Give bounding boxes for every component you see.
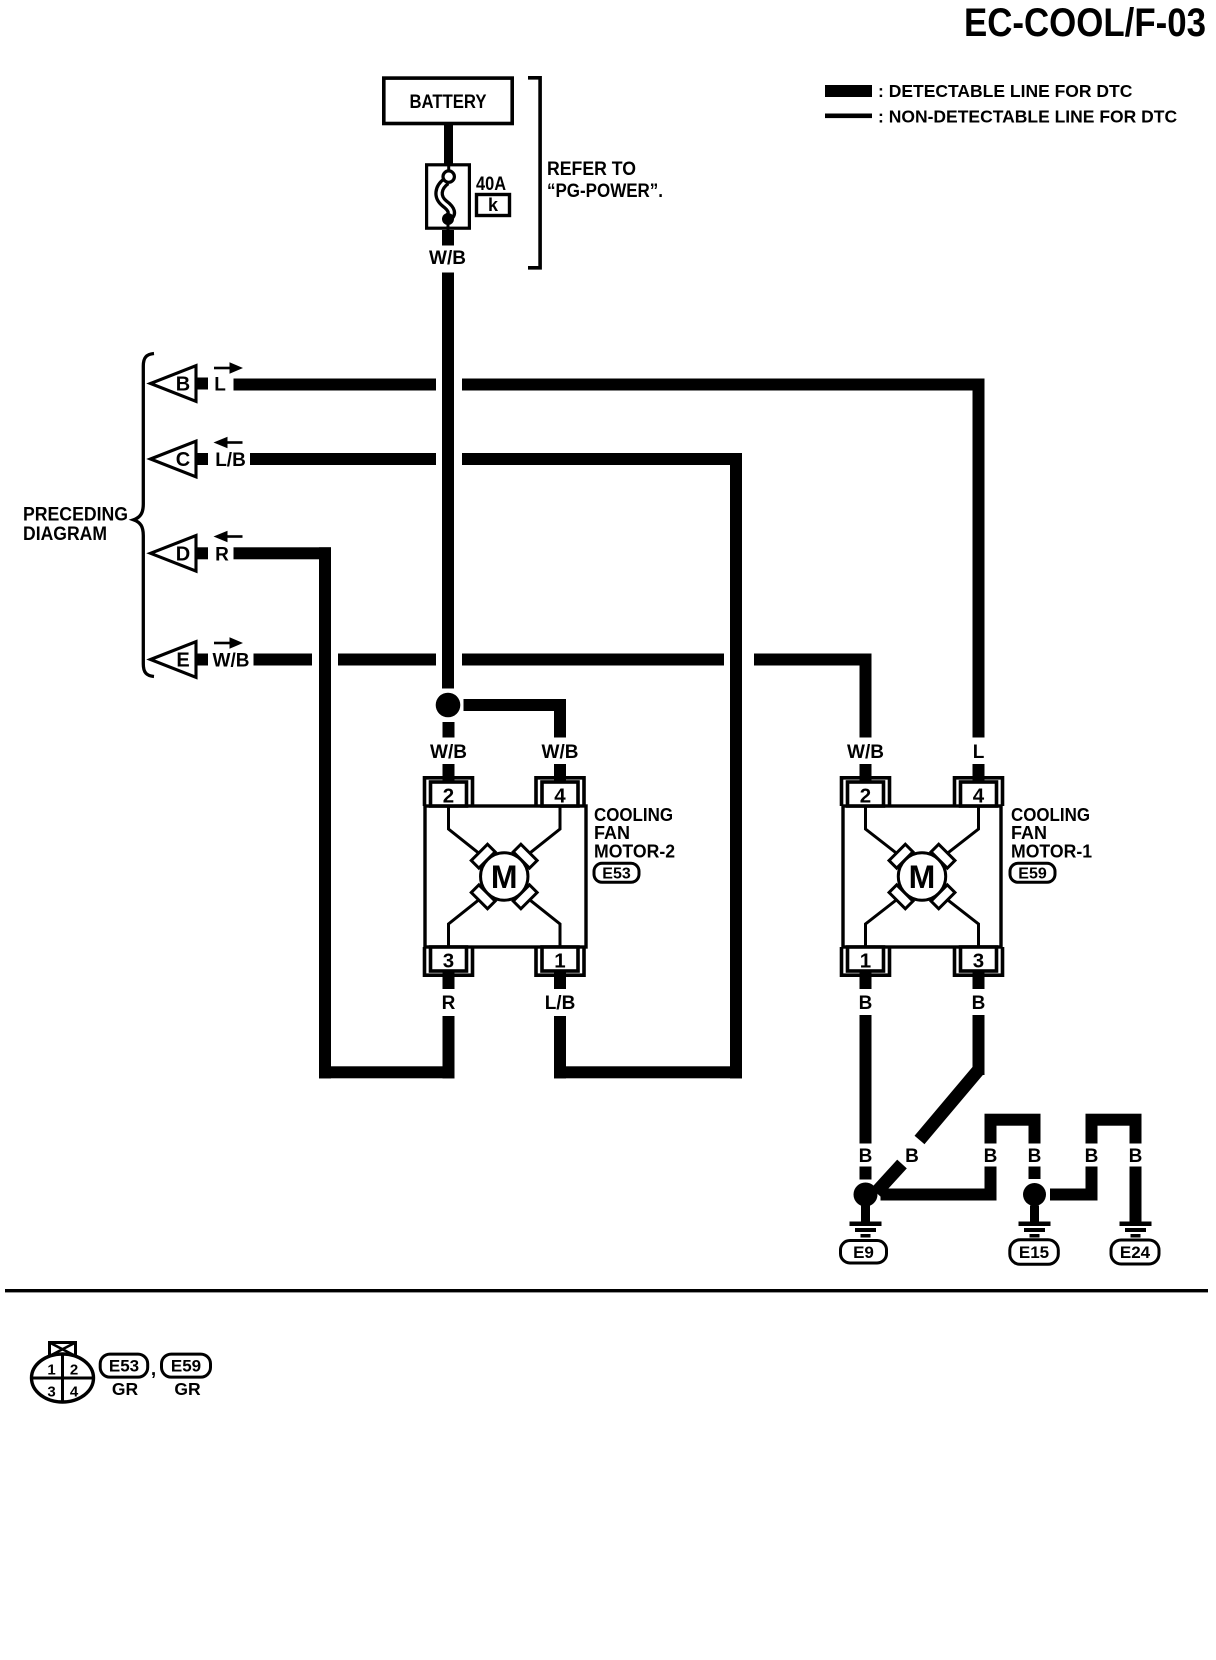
svg-text:M: M — [909, 859, 936, 895]
wire L/B horizontal seg1 — [250, 453, 436, 465]
svg-text:B: B — [1129, 1146, 1143, 1167]
svg-text:EC-COOL/F-03: EC-COOL/F-03 — [964, 1, 1206, 45]
wire B vertical pin1 to splice lower — [860, 1167, 872, 1180]
svg-text:L: L — [973, 742, 985, 763]
wire L/B lower vertical to corner — [554, 1016, 566, 1078]
wire W/B vertical lower (motor-1 pin2) — [860, 764, 872, 782]
connector arrow E (from preceding diagram) — [151, 642, 209, 678]
svg-text:“PG-POWER”.: “PG-POWER”. — [547, 181, 663, 202]
fuse letter box k — [477, 195, 510, 216]
ground id E24 — [1111, 1240, 1159, 1264]
svg-text:E59: E59 — [171, 1357, 201, 1376]
wire L/B horizontal seg2 — [462, 453, 742, 465]
svg-text:1: 1 — [860, 950, 871, 973]
note REFER TO PG-POWER — [547, 159, 663, 202]
ground symbol E9 — [850, 1206, 882, 1238]
wire R vertical — [319, 547, 331, 1078]
svg-text:E15: E15 — [1019, 1243, 1049, 1262]
wire B loop2 right leg upper — [1130, 1114, 1142, 1144]
motor-2 pin 1 — [536, 947, 584, 975]
svg-text:3: 3 — [47, 1384, 55, 1401]
svg-text:W/B: W/B — [847, 742, 884, 763]
svg-text:MOTOR-1: MOTOR-1 — [1011, 842, 1092, 862]
motor-1 pin 4 — [955, 778, 1003, 808]
svg-text:E: E — [176, 650, 189, 672]
svg-text:: DETECTABLE LINE FOR DTC: : DETECTABLE LINE FOR DTC — [878, 81, 1133, 101]
svg-text:B: B — [859, 1146, 873, 1167]
svg-text:BATTERY: BATTERY — [410, 92, 487, 113]
svg-text:C: C — [176, 449, 190, 471]
svg-text:E59: E59 — [1018, 866, 1047, 883]
svg-text:4: 4 — [70, 1384, 79, 1401]
wire R horizontal — [234, 547, 332, 559]
svg-text:: NON-DETECTABLE LINE FOR DTC: : NON-DETECTABLE LINE FOR DTC — [878, 107, 1177, 127]
svg-text:4: 4 — [554, 785, 566, 808]
wire B vertical pin1 to splice upper — [860, 1015, 872, 1144]
direction arrow for D wire — [214, 531, 243, 542]
svg-text:B: B — [972, 993, 986, 1014]
wire R bottom horizontal — [319, 1066, 455, 1078]
svg-text:B: B — [905, 1146, 919, 1167]
ground bus wire E9 to first loop — [881, 1189, 997, 1201]
svg-text:W/B: W/B — [213, 651, 250, 672]
motor-1 pin 2 — [842, 778, 890, 808]
wire B loop1 right leg lower — [1029, 1167, 1041, 1180]
svg-text:R: R — [215, 544, 229, 565]
direction arrow for C wire — [214, 437, 243, 448]
svg-text:M: M — [491, 859, 518, 895]
motor-2 pin 4 — [536, 778, 584, 808]
label COOLING FAN MOTOR-1 — [1011, 805, 1092, 862]
connector id E53 (motor-2) — [594, 863, 639, 882]
svg-text:MOTOR-2: MOTOR-2 — [594, 842, 675, 862]
legend thin non-detectable line sample — [825, 114, 872, 119]
svg-text:40A: 40A — [476, 174, 506, 195]
wire battery W/B vertical main — [442, 273, 454, 689]
svg-text:E24: E24 — [1120, 1243, 1151, 1262]
svg-text:E53: E53 — [602, 866, 631, 883]
svg-text:2: 2 — [443, 785, 454, 808]
wire B loop1 right leg upper — [1029, 1114, 1041, 1144]
junction node W/B splice — [436, 693, 461, 718]
wire W/B branch vertical upper (motor-2 pin4) — [554, 699, 566, 738]
ground bus wire E15 to second loop — [1050, 1189, 1098, 1201]
wire W/B horizontal seg4 — [754, 654, 872, 666]
svg-text:R: R — [442, 993, 456, 1014]
wire W/B branch vertical lower (motor-2 pin4) — [554, 764, 566, 782]
svg-text:4: 4 — [973, 785, 985, 808]
wire W/B horizontal seg3 — [462, 654, 724, 666]
wire R lower vertical to corner — [443, 1016, 455, 1078]
ground id E15 — [1010, 1240, 1059, 1265]
wire L/B stub below motor-2 pin1 — [554, 971, 566, 989]
svg-text:3: 3 — [443, 950, 454, 973]
svg-text:DIAGRAM: DIAGRAM — [23, 523, 107, 545]
label PRECEDING DIAGRAM — [23, 504, 128, 546]
wire L vertical lower (motor-1 pin4) — [973, 764, 985, 782]
svg-text:,: , — [151, 1359, 156, 1380]
wire L/B vertical — [730, 453, 742, 1078]
svg-text:B: B — [1085, 1146, 1099, 1167]
ground symbol E24 — [1120, 1222, 1152, 1238]
wire W/B horizontal seg2 — [338, 654, 436, 666]
svg-text:2: 2 — [70, 1362, 78, 1379]
wire B vertical pin3 to diagonal — [973, 1015, 985, 1075]
ground splice node E15 — [1023, 1183, 1046, 1206]
svg-text:L: L — [214, 375, 226, 396]
connector id E59 (motor-1) — [1010, 863, 1055, 882]
connector arrow C (from preceding diagram) — [151, 441, 209, 477]
svg-text:GR: GR — [112, 1379, 139, 1399]
svg-text:COOLING: COOLING — [1011, 805, 1090, 825]
svg-text:B: B — [1028, 1146, 1042, 1167]
wire L horizontal seg2 — [462, 379, 985, 391]
wire B loop1 left leg lower — [985, 1167, 997, 1201]
svg-text:L/B: L/B — [545, 993, 576, 1014]
wire B loop2 left leg lower — [1086, 1167, 1098, 1201]
motor-1 pin 3 — [955, 947, 1003, 975]
wire B stub below motor-1 pin3 — [973, 971, 985, 989]
wire W/B horizontal seg1 — [254, 654, 313, 666]
bracket refer to PG-POWER — [528, 78, 540, 268]
svg-text:FAN: FAN — [594, 823, 630, 843]
wire B diagonal upper segment — [920, 1070, 979, 1140]
svg-text:COOLING: COOLING — [594, 805, 673, 825]
svg-text:W/B: W/B — [430, 742, 467, 763]
svg-text:B: B — [859, 993, 873, 1014]
svg-text:GR: GR — [174, 1379, 201, 1399]
wire B loop2 right leg lower (to E24) — [1130, 1167, 1142, 1223]
svg-text:D: D — [176, 543, 190, 565]
connector arrow D (from preceding diagram) — [151, 536, 209, 572]
wire W/B vertical upper (motor-1 pin2) — [860, 660, 872, 738]
fuse 40A k (fusible link) — [427, 163, 470, 230]
connector id E59 (footer) — [162, 1354, 211, 1377]
connector face symbol (4-cavity) — [32, 1343, 94, 1403]
motor-2 pin 2 — [425, 778, 473, 808]
connector arrow B (from preceding diagram) — [151, 366, 209, 402]
svg-text:E53: E53 — [109, 1357, 139, 1376]
wire W/B main vertical lower (motor-2 pin2) — [443, 764, 455, 782]
svg-text:1: 1 — [47, 1362, 55, 1379]
direction arrow for E wire — [214, 637, 243, 648]
wire L horizontal seg1 — [234, 379, 437, 391]
wire B stub below motor-1 pin1 — [860, 971, 872, 989]
horizontal separator rule — [5, 1289, 1208, 1292]
svg-text:2: 2 — [860, 785, 871, 808]
svg-text:FAN: FAN — [1011, 823, 1047, 843]
cooling fan motor-1 body — [843, 806, 1001, 947]
svg-text:REFER TO: REFER TO — [547, 159, 636, 180]
motor-2 pin 3 — [425, 947, 473, 975]
wire B loop1 top bar — [985, 1114, 1041, 1126]
wire B diagonal lower segment — [876, 1164, 902, 1193]
cooling fan motor-2 body — [425, 806, 586, 947]
svg-text:B: B — [176, 374, 190, 396]
svg-text:W/B: W/B — [542, 742, 579, 763]
wire W/B main vertical upper (motor-2 pin2) — [443, 722, 455, 738]
svg-text:B: B — [984, 1146, 998, 1167]
wire B loop1 left leg upper — [985, 1114, 997, 1144]
direction arrow for B wire — [214, 362, 243, 373]
wire battery to fuse — [444, 125, 453, 165]
svg-text:1: 1 — [554, 950, 565, 973]
wire R stub below motor-2 pin3 — [443, 971, 455, 989]
brace preceding diagram — [134, 354, 154, 677]
connector id E53 (footer) — [100, 1354, 148, 1377]
label COOLING FAN MOTOR-2 — [594, 805, 675, 862]
svg-text:L/B: L/B — [215, 450, 246, 471]
legend thick detectable line sample — [825, 85, 872, 97]
svg-text:W/B: W/B — [429, 248, 466, 269]
ground symbol E15 — [1019, 1206, 1051, 1238]
wire B loop2 top bar — [1086, 1114, 1142, 1126]
wire fuse output W/B upper — [442, 230, 454, 246]
wire W/B branch horizontal to pin4 — [464, 699, 567, 711]
wire B loop2 left leg upper — [1086, 1114, 1098, 1144]
ground splice node E9 — [854, 1183, 878, 1207]
ground id E9 — [841, 1241, 887, 1264]
wire L/B bottom horizontal — [554, 1066, 742, 1078]
svg-text:3: 3 — [973, 950, 984, 973]
wire L vertical upper (motor-1 pin4) — [973, 385, 985, 738]
svg-text:E9: E9 — [853, 1243, 874, 1262]
motor-1 pin 1 — [842, 947, 890, 975]
svg-text:k: k — [488, 195, 499, 215]
battery box — [384, 78, 512, 123]
